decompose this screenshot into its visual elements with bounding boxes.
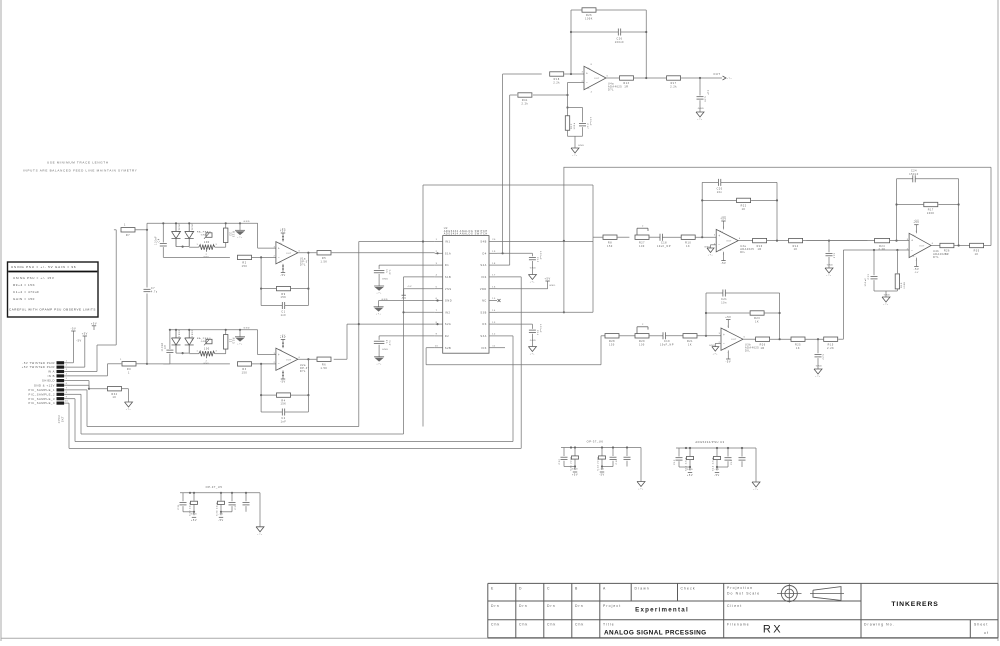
svg-text:100nF: 100nF	[589, 117, 591, 126]
svg-text:+5V: +5V	[721, 217, 727, 219]
svg-text:C15: C15	[833, 253, 835, 259]
svg-text:D2: D2	[445, 335, 449, 338]
svg-text:S1A: S1A	[445, 252, 451, 255]
svg-text:1: 1	[124, 224, 126, 227]
svg-text:S3B: S3B	[480, 311, 486, 314]
svg-text:2.2k: 2.2k	[522, 103, 529, 106]
svg-text:1R: 1R	[761, 347, 765, 350]
svg-text:-5V: -5V	[71, 327, 77, 330]
svg-text:VSS: VSS	[445, 288, 452, 291]
svg-text:C12: C12	[536, 257, 538, 263]
svg-text:PIC_SAMPLE_1: PIC_SAMPLE_1	[29, 388, 55, 392]
svg-text:-5V: -5V	[218, 519, 224, 522]
svg-text:Drn: Drn	[547, 604, 556, 608]
svg-text:−: −	[723, 342, 725, 346]
svg-text:150nF: 150nF	[865, 277, 867, 286]
svg-text:1: 1	[128, 371, 130, 374]
svg-text:-5V: -5V	[914, 272, 919, 274]
svg-text:12: 12	[492, 334, 496, 336]
svg-text:Chk: Chk	[547, 622, 556, 626]
svg-text:V−: V−	[720, 250, 724, 252]
svg-text:GND: GND	[884, 295, 891, 297]
svg-text:2.2K: 2.2K	[879, 248, 886, 251]
svg-text:2.2K: 2.2K	[827, 347, 834, 350]
svg-text:C4: C4	[159, 238, 161, 242]
svg-text:V−: V−	[279, 369, 283, 371]
svg-text:OUT: OUT	[731, 339, 737, 341]
svg-text:47n: 47n	[389, 269, 391, 275]
svg-text:100nF: 100nF	[539, 251, 541, 260]
svg-text:OP-37_U5: OP-37_U5	[206, 485, 223, 489]
svg-text:+: +	[278, 246, 280, 250]
svg-text:+5V: +5V	[191, 519, 197, 522]
svg-text:5: 5	[66, 378, 68, 380]
svg-text:-5V TWISTED PAIR: -5V TWISTED PAIR	[22, 361, 55, 365]
svg-text:100: 100	[204, 241, 210, 244]
svg-text:1uF: 1uF	[707, 90, 709, 96]
svg-text:V+: V+	[724, 330, 728, 332]
svg-text:-5V: -5V	[76, 340, 82, 343]
svg-text:1K: 1K	[112, 396, 116, 399]
svg-text:C22: C22	[822, 354, 824, 360]
svg-text:IN4: IN4	[481, 276, 487, 279]
svg-text:4.7u: 4.7u	[151, 291, 158, 293]
svg-text:100k: 100k	[574, 122, 576, 129]
svg-text:Drn: Drn	[491, 604, 500, 608]
svg-text:D: D	[519, 586, 523, 590]
svg-text:-5V: -5V	[218, 514, 223, 516]
svg-text:3: 3	[66, 369, 68, 371]
svg-text:USE MINIMUM TRACE LENGTH: USE MINIMUM TRACE LENGTH	[47, 161, 109, 165]
svg-text:+?+: +?+	[697, 119, 703, 121]
svg-text:GND: GND	[572, 468, 579, 470]
svg-text:C1+2 = 470uF: C1+2 = 470uF	[13, 290, 40, 294]
svg-text:C13: C13	[674, 459, 676, 465]
svg-text:OUT: OUT	[286, 253, 292, 255]
svg-text:−: −	[278, 362, 280, 366]
svg-text:D?L: D?L	[933, 256, 939, 259]
svg-text:4: 4	[66, 374, 68, 376]
svg-text:18: 18	[492, 263, 496, 265]
svg-text:15: 15	[492, 298, 496, 300]
svg-text:Chk: Chk	[519, 622, 528, 626]
svg-text:+?+: +?+	[883, 304, 889, 306]
svg-text:V+: V+	[587, 68, 591, 70]
svg-text:S2B: S2B	[445, 347, 451, 350]
svg-text:1: 1	[436, 239, 438, 241]
svg-text:USING PSU = +/- 15V: USING PSU = +/- 15V	[13, 276, 54, 280]
svg-text:1K: 1K	[796, 347, 800, 350]
svg-text:GND: GND	[445, 300, 452, 303]
svg-text:-5V: -5V	[280, 274, 286, 277]
svg-text:NC: NC	[482, 300, 487, 303]
svg-text:GND: GND	[382, 349, 389, 351]
svg-text:Drawing No.: Drawing No.	[864, 622, 895, 626]
svg-text:+?+: +?+	[713, 353, 719, 355]
svg-text:S3A: S3A	[480, 335, 486, 338]
svg-text:1R: 1R	[758, 248, 762, 251]
svg-text:C8: C8	[165, 345, 167, 349]
svg-text:+?+: +?+	[257, 534, 263, 536]
svg-text:+?+: +?+	[708, 255, 714, 257]
svg-text:V+: V+	[279, 350, 283, 352]
svg-text:1R: 1R	[624, 86, 628, 89]
svg-text:SHIELD: SHIELD	[42, 379, 55, 383]
svg-text:1K: 1K	[686, 245, 690, 248]
svg-text:1nF: 1nF	[281, 314, 287, 317]
svg-text:GND: GND	[530, 340, 537, 342]
svg-text:100K: 100K	[927, 212, 935, 215]
svg-text:110nF: 110nF	[162, 342, 164, 351]
svg-text:47n: 47n	[389, 340, 391, 346]
svg-text:GND: GND	[244, 221, 251, 223]
svg-text:1K: 1K	[742, 208, 746, 211]
svg-text:V+: V+	[720, 231, 724, 233]
svg-text:D?L: D?L	[608, 89, 614, 92]
svg-text:150nF: 150nF	[909, 173, 919, 176]
svg-text:1K: 1K	[755, 321, 759, 324]
svg-text:100: 100	[639, 343, 645, 346]
svg-text:−: −	[718, 243, 720, 247]
svg-text:+5V: +5V	[914, 220, 920, 222]
svg-text:1N4148: 1N4148	[178, 223, 180, 234]
svg-text:USING PSU = +/- 5V GAIN = 96: USING PSU = +/- 5V GAIN = 96	[11, 265, 76, 269]
svg-text:1.5K: 1.5K	[320, 367, 327, 370]
svg-text:+: +	[278, 353, 280, 357]
svg-text:3: 3	[436, 263, 438, 265]
svg-text:+?+: +?+	[237, 237, 243, 239]
svg-text:-5V: -5V	[407, 286, 412, 288]
svg-text:150: 150	[242, 265, 248, 268]
svg-text:-5V: -5V	[599, 468, 604, 470]
svg-text:1: 1	[66, 360, 68, 362]
svg-text:PIC_SAMPLE_3: PIC_SAMPLE_3	[29, 397, 55, 401]
svg-text:+?+: +?+	[376, 363, 382, 365]
svg-text:OUT: OUT	[713, 72, 720, 76]
svg-text:150: 150	[609, 343, 615, 346]
svg-text:C: C	[547, 586, 551, 590]
svg-text:C16: C16	[616, 458, 618, 464]
svg-text:+?+: +?+	[815, 376, 821, 378]
svg-text:V−: V−	[912, 256, 916, 258]
svg-text:DIL: DIL	[740, 251, 745, 254]
svg-text:2.2k: 2.2k	[553, 82, 560, 85]
svg-text:150: 150	[607, 245, 613, 248]
svg-text:S4A: S4A	[480, 264, 486, 267]
svg-text:ANALOG SIGNAL PRCESSING: ANALOG SIGNAL PRCESSING	[604, 629, 707, 636]
svg-text:Drn: Drn	[575, 604, 584, 608]
svg-text:IN A: IN A	[48, 370, 55, 374]
svg-text:+5V: +5V	[82, 332, 88, 335]
svg-text:R13: R13	[231, 231, 235, 237]
svg-text:-5V: -5V	[726, 361, 732, 364]
svg-text:11: 11	[492, 345, 496, 347]
svg-text:Drawn: Drawn	[635, 586, 650, 590]
svg-text:6: 6	[66, 383, 68, 385]
svg-text:+5V TWISTED PAIR: +5V TWISTED PAIR	[22, 365, 55, 369]
svg-text:R19: R19	[901, 282, 903, 288]
svg-text:IN2: IN2	[445, 311, 451, 314]
svg-text:Sheet: Sheet	[974, 622, 988, 626]
svg-text:C28: C28	[704, 97, 706, 103]
svg-text:+5V: +5V	[687, 474, 693, 477]
svg-text:-5V: -5V	[914, 268, 920, 271]
svg-text:R7: R7	[126, 234, 130, 237]
svg-text:GND & +12V: GND & +12V	[34, 383, 55, 387]
svg-text:OP-37_U6: OP-37_U6	[587, 440, 604, 444]
svg-text:-5V: -5V	[721, 262, 727, 265]
svg-text:4: 4	[436, 275, 438, 277]
svg-text:Filename: Filename	[727, 622, 750, 626]
svg-text:150: 150	[242, 371, 248, 374]
svg-text:A: A	[603, 586, 606, 590]
svg-text:10uF_NP: 10uF_NP	[657, 245, 671, 248]
svg-text:GND: GND	[687, 469, 694, 471]
svg-text:GND: GND	[382, 299, 389, 301]
svg-text:+5V: +5V	[280, 228, 286, 230]
svg-text:GND: GND	[191, 514, 198, 516]
svg-text:S4B: S4B	[480, 241, 486, 244]
svg-text:VDD: VDD	[480, 288, 487, 291]
svg-text:Title: Title	[603, 622, 615, 626]
svg-text:+5V: +5V	[725, 316, 731, 319]
svg-text:1N4148: 1N4148	[191, 330, 193, 341]
svg-text:+: +	[586, 71, 588, 75]
svg-text:+?+: +?+	[126, 409, 132, 411]
svg-text:of: of	[984, 631, 989, 635]
svg-text:Check: Check	[681, 586, 696, 590]
svg-text:1: 1	[120, 359, 122, 361]
svg-text:1K: 1K	[975, 253, 979, 256]
svg-text:PIC_SAMPLE_2: PIC_SAMPLE_2	[29, 392, 55, 396]
svg-text:GND: GND	[382, 278, 389, 280]
svg-text:1nF: 1nF	[281, 420, 287, 423]
svg-text:Drn: Drn	[519, 604, 528, 608]
svg-text:INPUTS ARE BALANCED FEED LINE: INPUTS ARE BALANCED FEED LINE MAINTAIN S…	[23, 169, 138, 173]
svg-text:OUT: OUT	[726, 241, 732, 243]
svg-text:+5V: +5V	[91, 323, 97, 326]
svg-text:E: E	[491, 586, 494, 590]
svg-text:C33: C33	[235, 504, 237, 510]
svg-text:IN1: IN1	[445, 241, 451, 244]
svg-text:C7: C7	[151, 288, 155, 290]
svg-text:+?+: +?+	[826, 275, 832, 277]
svg-text:9: 9	[66, 396, 68, 398]
svg-text:19: 19	[492, 251, 496, 253]
svg-text:Chk: Chk	[575, 622, 584, 626]
svg-text:DIL: DIL	[745, 350, 750, 353]
svg-text:Chk: Chk	[491, 622, 500, 626]
svg-text:GND: GND	[698, 108, 705, 110]
svg-text:16: 16	[492, 286, 496, 288]
svg-text:C10: C10	[731, 459, 733, 465]
svg-text:+?+: +?+	[530, 354, 536, 356]
svg-text:100K: 100K	[904, 281, 906, 288]
svg-text:S1B: S1B	[445, 276, 451, 279]
svg-text:+5V: +5V	[545, 277, 551, 280]
svg-text:9: 9	[436, 334, 438, 336]
svg-text:RX: RX	[763, 624, 783, 636]
svg-text:+?+: +?+	[530, 282, 536, 284]
svg-text:100nF: 100nF	[539, 324, 541, 333]
svg-text:2.2k: 2.2k	[670, 86, 677, 89]
svg-text:-5V: -5V	[599, 474, 605, 477]
svg-text:10n: 10n	[717, 191, 723, 194]
svg-text:V−: V−	[724, 349, 728, 351]
svg-text:V+: V+	[912, 235, 916, 237]
svg-text:C6: C6	[386, 339, 388, 343]
svg-text:D1: D1	[445, 264, 449, 267]
svg-text:GND: GND	[816, 366, 823, 368]
svg-text:V−: V−	[587, 88, 591, 90]
svg-text:Projection: Projection	[727, 586, 753, 590]
svg-text:IN B: IN B	[48, 374, 55, 378]
svg-text:B: B	[575, 586, 578, 590]
svg-text:10n: 10n	[721, 302, 727, 305]
svg-text:−: −	[278, 255, 280, 259]
svg-text:100: 100	[204, 348, 210, 351]
svg-text:+?+: +?+	[753, 489, 759, 491]
svg-text:+: +	[911, 239, 913, 243]
svg-text:C23: C23	[868, 273, 870, 279]
svg-text:GND: GND	[530, 268, 537, 270]
svg-text:2: 2	[66, 365, 68, 367]
svg-text:100: 100	[639, 245, 645, 248]
svg-text:1N4148: 1N4148	[178, 330, 180, 341]
svg-text:+?+: +?+	[572, 155, 578, 157]
svg-text:+: +	[723, 333, 725, 337]
svg-text:7: 7	[436, 310, 438, 312]
svg-text:+5V: +5V	[572, 474, 578, 477]
svg-text:1R: 1R	[945, 253, 949, 256]
svg-text:1K: 1K	[794, 248, 798, 251]
svg-text:OUT: OUT	[919, 245, 925, 247]
svg-text:OUT: OUT	[594, 78, 600, 80]
svg-text:-5V: -5V	[714, 469, 719, 471]
svg-text:1K: 1K	[688, 343, 692, 346]
svg-text:D3: D3	[483, 323, 487, 326]
svg-text:V+: V+	[279, 243, 283, 245]
svg-text:+?+: +?+	[638, 489, 644, 491]
svg-text:17: 17	[492, 275, 496, 277]
svg-text:+?+: +?+	[237, 343, 243, 345]
svg-text:-5V: -5V	[714, 474, 720, 477]
svg-text:C5: C5	[386, 268, 388, 272]
svg-text:10uF_NP: 10uF_NP	[660, 343, 674, 346]
svg-text:ADG5434/PSU U3: ADG5434/PSU U3	[695, 440, 724, 444]
svg-text:Project: Project	[603, 604, 621, 608]
svg-text:GND: GND	[578, 145, 585, 147]
svg-text:GND: GND	[827, 265, 834, 267]
svg-text:−: −	[586, 81, 588, 85]
svg-text:GND: GND	[549, 285, 556, 287]
svg-text:7: 7	[66, 388, 68, 390]
svg-text:D?L: D?L	[300, 370, 306, 373]
svg-text:R12: R12	[571, 123, 573, 129]
svg-text:ADG5434 ANALOG SWITCH: ADG5434 ANALOG SWITCH	[444, 233, 488, 236]
svg-text:1.5K: 1.5K	[320, 260, 327, 263]
svg-text:20: 20	[492, 239, 496, 241]
svg-text:+?+: +?+	[727, 78, 733, 80]
svg-text:15K: 15K	[281, 403, 287, 406]
svg-text:V−: V−	[279, 262, 283, 264]
svg-text:GND: GND	[244, 328, 251, 330]
svg-text:5: 5	[436, 286, 438, 288]
svg-text:10: 10	[435, 345, 439, 347]
svg-text:100K: 100K	[585, 18, 593, 21]
svg-text:+?+: +?+	[376, 313, 382, 315]
svg-text:C31: C31	[178, 504, 180, 510]
svg-text:+?+: +?+	[376, 293, 382, 295]
svg-text:14: 14	[492, 310, 496, 312]
svg-text:100nF: 100nF	[615, 41, 625, 44]
svg-text:IN3: IN3	[481, 347, 487, 350]
svg-text:OUT: OUT	[286, 359, 292, 361]
svg-text:10: 10	[65, 401, 68, 403]
svg-text:D4: D4	[483, 252, 487, 255]
svg-text:R9+4 = 15K: R9+4 = 15K	[13, 283, 35, 287]
svg-text:-5V: -5V	[280, 381, 286, 384]
svg-text:13: 13	[492, 322, 496, 324]
svg-text:Experimental: Experimental	[635, 606, 689, 613]
svg-text:S2A: S2A	[445, 323, 451, 326]
svg-text:R13: R13	[231, 338, 235, 344]
svg-text:−: −	[911, 248, 913, 252]
svg-text:+: +	[718, 234, 720, 238]
svg-text:110nF: 110nF	[156, 236, 158, 245]
svg-text:1N4148: 1N4148	[191, 223, 193, 234]
svg-text:C17: C17	[586, 124, 588, 130]
svg-text:8: 8	[66, 392, 68, 394]
svg-text:15K: 15K	[281, 296, 287, 299]
svg-text:Client: Client	[727, 604, 742, 608]
svg-text:D?L: D?L	[300, 263, 306, 266]
svg-text:SKT: SKT	[62, 416, 65, 422]
svg-text:Do Not Scale: Do Not Scale	[727, 592, 760, 596]
svg-text:C32: C32	[559, 458, 561, 464]
svg-text:TINKERERS: TINKERERS	[891, 601, 938, 608]
svg-text:CAREFUL WITH OPAMP PSU OBSERVE: CAREFUL WITH OPAMP PSU OBSERVE LIMITS	[9, 308, 96, 312]
svg-text:GAIN = 150: GAIN = 150	[13, 297, 35, 301]
svg-text:-5V: -5V	[401, 297, 407, 300]
svg-text:C11: C11	[536, 330, 538, 336]
svg-text:PIC_SAMPLE_4: PIC_SAMPLE_4	[29, 401, 55, 405]
svg-text:+5V: +5V	[280, 335, 286, 337]
